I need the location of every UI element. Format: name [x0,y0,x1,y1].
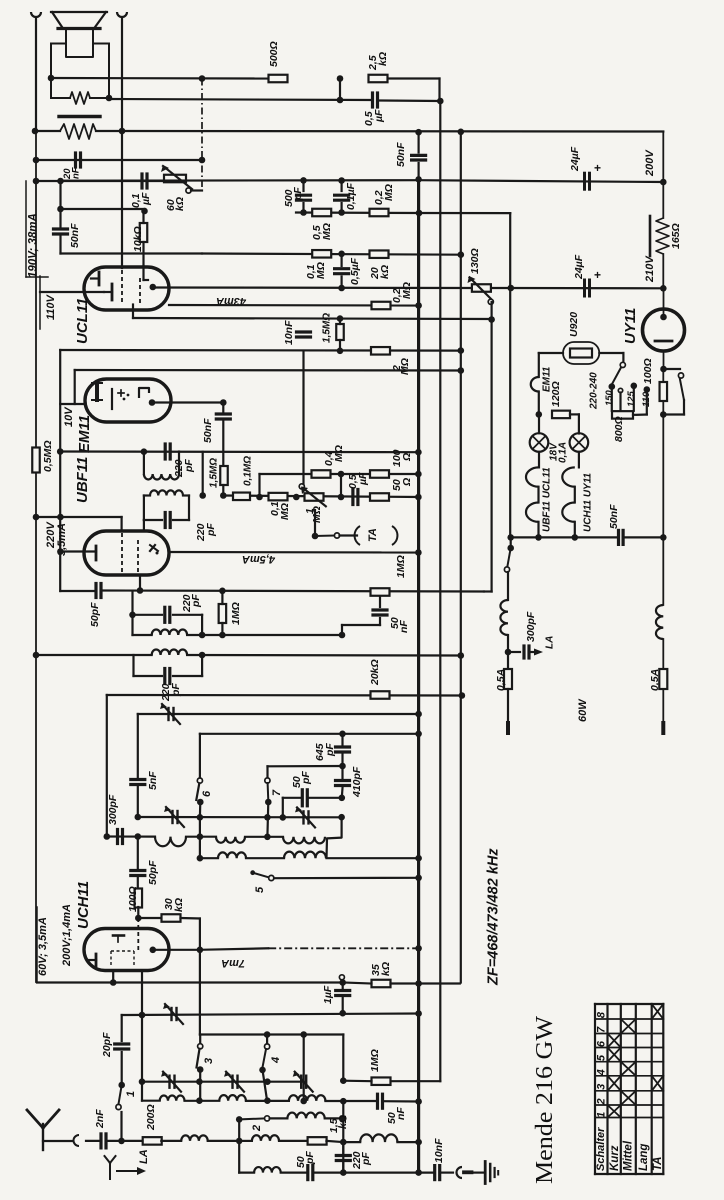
node EM11 anode junction [220,399,227,406]
svg-text:5nF: 5nF [147,771,159,790]
wire row948 dashdot [268,945,422,952]
svg-text:UCH11: UCH11 [75,881,92,929]
IFT3 tank A cap 220pF [133,607,203,622]
node mains row415 [660,411,667,418]
label EM11 [76,415,93,453]
vertical x142 [139,1015,146,1101]
svg-text:MΩ: MΩ [321,223,333,240]
svg-text:24µF: 24µF [573,254,585,280]
svg-text:10nF: 10nF [283,320,295,345]
svg-text:410pF: 410pF [351,766,363,798]
resistor 1,5MOhm [321,313,343,354]
label 210V [644,255,656,283]
capacitor 50pF UCH [131,837,159,890]
wire row288 anode B+ [153,286,473,289]
svg-text:800Ω: 800Ω [613,416,625,442]
switch 3 [197,1035,216,1082]
wire x663 down [660,415,667,541]
resistor 50Ohm [370,478,413,501]
svg-text:pF: pF [183,459,195,473]
node row131 x122 [119,128,126,135]
node antenna mid [236,1138,243,1145]
node heater row414 left [536,411,543,418]
svg-text:50nF: 50nF [395,142,407,167]
wire row1081 right [340,1077,372,1084]
svg-text:7: 7 [271,789,283,796]
svg-text:6: 6 [201,790,213,797]
resistor 100Ohm ta [370,449,413,477]
svg-text:Lang: Lang [638,1144,650,1171]
speaker magnet box [66,30,93,58]
capacitor 10nF out [421,1138,453,1180]
svg-text:0,5A: 0,5A [495,669,507,691]
capacitor 500pF [283,177,311,212]
EM11 target electrode [92,383,102,400]
svg-text:nF: nF [398,620,410,633]
wire row714 [138,711,422,718]
wire row253 [61,252,203,254]
wire row253 mid [202,251,464,258]
resistor 1MOhm ant [343,1049,390,1085]
svg-text:50nF: 50nF [608,504,620,529]
label UBF11 [74,457,91,503]
fuse 0,5A left [495,652,512,723]
svg-text:2: 2 [596,1098,608,1105]
capacitor 24uF 1 [569,146,601,189]
UBF11 grid dashes [122,533,138,572]
svg-text:pF: pF [360,1152,372,1166]
svg-text:50pF: 50pF [147,860,159,885]
svg-text:pF: pF [300,771,312,785]
svg-text:300pF: 300pF [525,611,537,642]
wire rail x418 thick [417,179,420,1172]
capacitor 410pF [336,766,363,801]
wire row160 [36,159,202,161]
selector switch [609,362,626,390]
label 7mA [221,957,245,969]
wire 2,5k to row101 [437,79,444,105]
wire row212 [296,209,419,216]
svg-text:EM11: EM11 [76,415,93,453]
resistor 100Ohm UCH [127,886,142,918]
UCH11 grid dash [137,918,139,950]
svg-text:pF: pF [190,594,202,608]
coil osc b2 [284,852,326,859]
capacitor 50nF rail top [395,129,426,183]
switch TA [312,510,357,539]
wire x663 top [662,132,664,183]
svg-text:4: 4 [596,1069,608,1076]
wire row517 [36,514,122,531]
UCL11 screen dashes [139,278,141,306]
IFT1 tank A cap 220pF [165,444,195,478]
label Mende 216 GW [531,1015,558,1184]
mains choke right [656,537,663,669]
UY11 bottom lead [660,351,667,372]
capacitor 50pF ant [295,1151,344,1180]
wire x341 vert [340,474,342,497]
coil band 5 [254,1167,308,1173]
node rail418 row497 [415,494,422,501]
svg-text:4: 4 [270,1057,282,1064]
wire row1172 [239,1141,254,1173]
capacitor 0,5uF fb [340,93,440,126]
resistor 800Ohm [612,411,647,442]
svg-text:kΩ: kΩ [379,265,391,279]
capacitor 50pF UBF cathode [89,584,101,628]
svg-text:24µF: 24µF [569,146,581,172]
svg-text:pF: pF [205,523,217,537]
resistor 0,1MOhm b [269,493,291,520]
UBF11 diode plates [150,545,159,555]
svg-text:5: 5 [254,886,266,893]
UCH11 electrodes [88,936,124,967]
label UCH11 [75,881,92,929]
switch 4 [259,1035,282,1101]
wire row181 [36,180,162,182]
vertical gang3 [303,1035,305,1102]
svg-text:190V; 38mA: 190V; 38mA [28,213,40,278]
switch 5 [250,870,274,893]
capacitor 0,5uF 2 [335,251,361,292]
label UCL11 [74,298,91,344]
tube UY11 [643,309,685,351]
trimmer osc 1 [164,806,184,827]
node transformer right [106,95,113,102]
label 220pF IFT3b [160,683,182,702]
svg-text:8: 8 [596,1011,608,1018]
resistor 200Ohm [122,1104,162,1144]
svg-text:Ω: Ω [401,478,413,487]
coil antenna [161,1135,239,1141]
resistor 0,5MOhm [32,440,54,472]
wire row1081 trimmers [142,1078,304,1085]
wire heater bus row537 [507,534,616,541]
svg-text:150: 150 [604,389,615,406]
svg-text:MΩ: MΩ [315,262,327,279]
vertical x200 to rf row [199,1081,201,1100]
label UCH UY [582,472,593,532]
svg-text:165Ω: 165Ω [670,223,682,249]
resistor 20kOhm [369,659,390,698]
capacitor 0,1uF top [130,174,152,208]
svg-text:+: + [594,268,601,282]
tube UCL11 [84,267,169,310]
node antenna junction [118,1138,125,1145]
UBF11 grid left [57,546,96,560]
svg-text:MΩ: MΩ [399,358,411,375]
dash-dot line volume [201,79,203,191]
wire row858 [200,855,422,862]
trimmer IF [160,703,180,724]
wire row878 [274,875,422,882]
wire row1015 [122,1010,422,1018]
trimmer gang 2 [224,1071,244,1092]
resistor 100Ohm mains [641,358,667,414]
svg-text:kΩ: kΩ [174,197,186,211]
wire row213 to rail511 [419,212,510,214]
resistor 2MOhm [371,347,411,375]
node 1uF top [339,975,346,986]
switch table [595,1004,664,1174]
label UY11 [622,308,639,344]
UCH11 dashed electrodes [111,951,134,966]
wire row180 [57,178,418,185]
node row160 left [33,157,40,164]
tube UCH11 [84,929,169,971]
wire row1101 [142,1097,377,1104]
antenna hook [74,1135,80,1146]
wire rail x440 [439,101,441,1081]
svg-text:1MΩ: 1MΩ [369,1049,381,1072]
svg-text:1MΩ: 1MΩ [230,602,242,625]
svg-text:UCL11: UCL11 [74,298,91,344]
resistor 0,1MOhm ucl [305,250,331,279]
wire row591 corner [484,590,492,592]
svg-text:7: 7 [596,1026,608,1033]
svg-text:MΩ: MΩ [401,282,413,299]
node speaker feedback [48,75,55,82]
wire row209 [61,208,145,210]
capacitor 50pF osc [283,771,342,818]
UCL11 cathode electrode [40,284,112,300]
wire row695 [107,692,465,699]
node row497 x341 [338,494,345,501]
svg-text:7mA: 7mA [221,957,245,969]
svg-text:220-240: 220-240 [588,372,599,410]
wire row591 [60,590,96,592]
svg-text:3: 3 [596,1084,608,1090]
coil osc a3 [283,837,325,844]
label UBF UCL [541,467,552,532]
EM11 anode [149,399,224,406]
wire row131 long rail [35,130,663,133]
UCH11 cathode lead [110,971,117,986]
capacitor 300pF la [508,611,555,658]
resistor 0,2MOhm 2 [372,282,413,309]
wire rail x461 [458,129,465,983]
wire row733 [200,731,422,738]
capacitor 0,1uF 2 [335,177,357,212]
label 190V 38mA [26,181,48,278]
wire row78 feedback [51,77,268,80]
node dashdot row78 [199,75,206,82]
svg-text:MΩ: MΩ [333,445,345,462]
wire row99 feedback [109,99,372,100]
heater chain 2 [562,452,579,541]
UY11 cathode [660,288,667,320]
capacitor 10nF [283,320,311,345]
wire x259 vert [256,474,263,500]
wire row1172 right [340,1169,422,1176]
wire row305 [169,302,422,309]
svg-text:2: 2 [251,1125,263,1132]
mains choke [500,572,508,652]
coil rf a [160,1096,185,1101]
svg-text:3: 3 [203,1058,215,1064]
potentiometer 1MOhm [299,351,326,523]
svg-text:Mende 216 GW: Mende 216 GW [531,1015,558,1184]
coil osc b1 [218,852,246,858]
IFT3 left vertical [129,591,136,635]
IFT1 tank B cap 220pF [144,496,217,543]
label 43mA [216,295,247,307]
capacitor 50nF heater [608,504,664,544]
svg-text:MΩ: MΩ [279,503,291,520]
svg-text:110V: 110V [45,293,57,320]
wire row474 [260,471,419,478]
node row591 x132 [219,588,226,595]
capacitor 20pF [101,1015,129,1083]
node 300pF [505,649,512,656]
coil osc a1 [155,837,186,847]
resistor 165Ohm wirewound [650,182,682,288]
wire row451 [57,448,419,455]
svg-text:pF: pF [292,187,304,201]
tube EM11 [85,379,171,422]
resistor 1MOhm IFT3 [219,591,242,639]
svg-text:µF: µF [140,192,152,206]
svg-text:kΩ: kΩ [377,52,389,66]
capacitor 50nF cathode [54,223,81,248]
label 18V 01A [548,442,568,463]
IFT1 right vertical [199,452,206,499]
terminal hook ground [457,1167,484,1178]
wire left rail x36 [35,19,37,982]
terminal mains right [661,723,665,733]
EM11 triode [112,389,129,409]
IFT1 tank B coil [144,490,189,495]
svg-text:120Ω: 120Ω [550,381,562,407]
jack TA [355,526,398,545]
svg-text:+: + [594,161,601,175]
node row160 right [199,157,206,164]
svg-text:LA: LA [544,636,555,649]
node row181 left [33,178,40,185]
svg-text:kΩ: kΩ [337,1115,349,1129]
svg-text:2nF: 2nF [94,1109,106,1129]
U920 right lead [599,353,623,362]
svg-text:Kurz: Kurz [609,1145,621,1171]
ground symbol [485,1162,498,1184]
label 220pF IFT3a [181,594,202,613]
UCL11 pentode grid dashes [121,270,123,305]
mains switch [504,537,514,572]
coil rf b [219,1095,246,1101]
svg-text:300pF: 300pF [107,794,119,825]
barretter U920 [563,312,599,364]
wire 50nF branch [59,181,61,254]
node rail418 row212 [416,210,423,217]
switch 2 [236,1116,270,1141]
coil rf c [289,1095,326,1101]
resistor 30kOhm [138,898,200,950]
trimmer gang 1 [161,1071,181,1092]
svg-text:Schalter: Schalter [595,1127,607,1171]
svg-text:U920: U920 [568,312,580,337]
node row209 [141,208,148,215]
label 60W [577,698,589,722]
svg-text:1MΩ: 1MΩ [395,555,407,578]
vertical x343 rf [340,1101,347,1172]
svg-text:TA: TA [652,1157,664,1171]
wire row766 [268,763,346,778]
resistor 0,4MOhm [312,445,345,478]
row131 nodes [419,131,461,134]
wire row1034 [200,1031,343,1038]
svg-text:1µF: 1µF [322,985,334,1004]
svg-text:1: 1 [596,1112,608,1118]
wire wiper down [488,302,495,592]
wire row635 [222,634,342,636]
svg-text:10nF: 10nF [433,1138,445,1163]
svg-text:nF: nF [71,167,82,179]
wire left box vertical [106,695,108,837]
node row209 left [57,206,64,213]
svg-text:60W: 60W [577,698,589,722]
svg-text:Mittel: Mittel [623,1140,635,1171]
UY11 switch [663,369,684,415]
svg-text:0,5µF: 0,5µF [349,257,361,285]
svg-text:1: 1 [125,1091,137,1097]
svg-text:100Ω: 100Ω [642,358,654,384]
svg-text:nF: nF [395,1107,407,1120]
capacitor 2nF [86,1109,122,1148]
capacitor 0,5uF ta [347,472,369,505]
terminal mains left [506,723,510,733]
capacitor 50nF AF [339,588,410,638]
terminal hook left speaker [31,12,41,131]
node row452 rail [415,449,422,456]
svg-text:10V: 10V [63,406,75,427]
IFT3 tank A coil [133,615,223,639]
IFT3 tank B coil [152,649,464,658]
svg-text:µF: µF [373,109,385,123]
label 200V 1,4mA [61,904,73,967]
wire row288 right [491,287,663,289]
svg-text:10kΩ: 10kΩ [132,226,144,252]
resistor 1MOhm AF [371,555,407,596]
vertical x200 anode to tank [199,950,201,1035]
node rail418 row552 [415,549,422,556]
trimmer osc 2 [295,806,315,827]
svg-text:kΩ: kΩ [173,898,185,912]
wire row370 [75,367,464,404]
heater chain 1 [526,452,542,541]
switch 7 [265,778,283,837]
node 210V [660,285,667,292]
resistor 500Ohm [268,41,288,82]
svg-text:200V: 200V [644,149,656,177]
resistor 2,5kOhm [367,52,440,82]
coil osc a2 [216,837,245,843]
svg-text:500Ω: 500Ω [268,41,280,67]
UY11 filament [655,340,672,343]
svg-text:kΩ: kΩ [380,962,392,976]
label 220V 3,5mA [45,521,68,556]
svg-text:LA: LA [138,1149,150,1164]
field coil bar [59,115,100,118]
node row131 left [32,128,39,135]
capacitor 24uF 2 [573,254,601,296]
transformer secondary resistor [51,92,109,104]
EM11 wire left [60,403,85,405]
field coil resistor [60,124,96,139]
svg-text:UBF11: UBF11 [74,457,91,503]
label 60V 3,5mA [37,917,49,976]
potentiometer 60kOhm [161,165,202,211]
label LA antenna [105,1149,151,1179]
